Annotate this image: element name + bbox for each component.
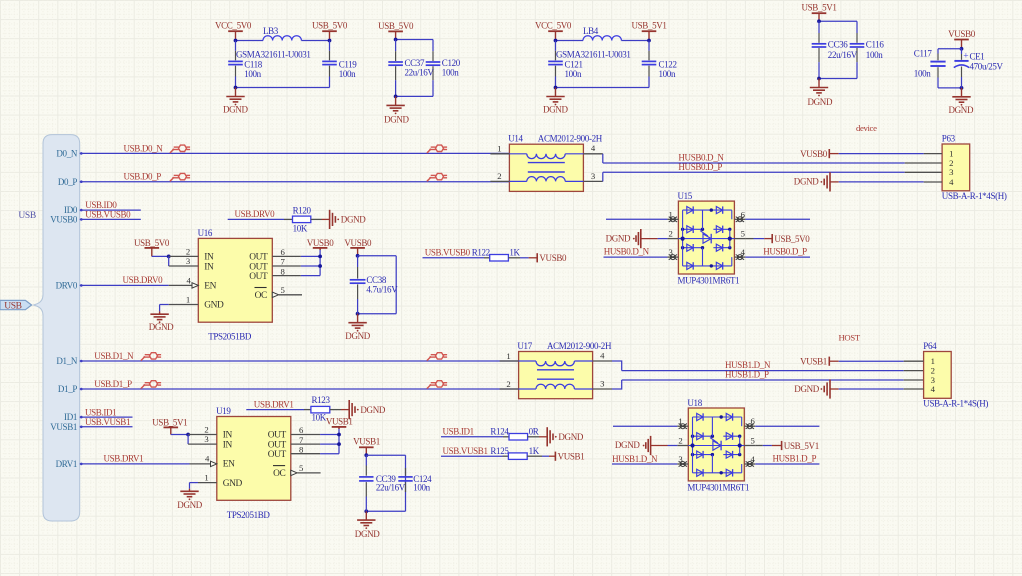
svg-text:USB_5V1: USB_5V1 — [152, 418, 187, 428]
svg-text:U19: U19 — [216, 406, 231, 416]
svg-text:100n: 100n — [565, 69, 582, 79]
svg-text:VCC_5V0: VCC_5V0 — [535, 21, 572, 31]
svg-text:CC36: CC36 — [828, 40, 848, 50]
svg-text:U15: U15 — [678, 191, 693, 201]
svg-text:2: 2 — [506, 379, 510, 389]
svg-text:22u/16V: 22u/16V — [828, 50, 858, 60]
svg-text:USB.ID1: USB.ID1 — [443, 427, 474, 437]
svg-text:5: 5 — [299, 463, 303, 473]
svg-text:R122: R122 — [472, 248, 490, 258]
svg-text:IN: IN — [223, 431, 233, 441]
svg-text:DGND: DGND — [345, 331, 370, 341]
svg-text:2: 2 — [497, 171, 501, 181]
svg-text:USB_5V0: USB_5V0 — [774, 234, 810, 244]
svg-text:3: 3 — [949, 167, 953, 177]
svg-text:CC37: CC37 — [405, 58, 425, 68]
svg-text:0R: 0R — [529, 427, 539, 437]
svg-text:22u/16V: 22u/16V — [376, 483, 406, 493]
svg-text:4.7u/16V: 4.7u/16V — [366, 284, 398, 294]
svg-text:100n: 100n — [442, 67, 459, 77]
svg-text:GND: GND — [223, 479, 243, 489]
svg-text:GSMA321611-U0031: GSMA321611-U0031 — [556, 50, 631, 60]
svg-text:OUT: OUT — [249, 262, 268, 272]
svg-text:OC: OC — [255, 291, 267, 301]
svg-text:OUT: OUT — [268, 440, 287, 450]
svg-text:R125: R125 — [490, 446, 509, 456]
svg-text:VUSB0: VUSB0 — [344, 238, 372, 248]
svg-text:C119: C119 — [339, 60, 358, 70]
svg-text:C122: C122 — [659, 60, 677, 70]
svg-text:OUT: OUT — [249, 253, 268, 263]
svg-text:MUP4301MR6T1: MUP4301MR6T1 — [687, 482, 749, 492]
svg-text:100n: 100n — [659, 69, 676, 79]
svg-text:C116: C116 — [866, 40, 885, 50]
svg-text:HUSB0.D_P: HUSB0.D_P — [678, 162, 722, 172]
svg-text:USB.D1_P: USB.D1_P — [94, 379, 132, 389]
svg-text:10K: 10K — [293, 223, 308, 233]
svg-text:ACM2012-900-2H: ACM2012-900-2H — [547, 341, 612, 351]
svg-text:GSMA321611-U0031: GSMA321611-U0031 — [236, 50, 311, 60]
svg-text:USB: USB — [4, 301, 21, 311]
svg-text:USB-A-R-1*4S(H): USB-A-R-1*4S(H) — [942, 191, 1007, 201]
svg-text:C120: C120 — [442, 58, 461, 68]
svg-text:2: 2 — [186, 247, 190, 257]
svg-text:2: 2 — [678, 436, 682, 446]
svg-text:HUSB1.D_N: HUSB1.D_N — [612, 454, 658, 464]
svg-text:USB.ID1: USB.ID1 — [85, 408, 116, 418]
svg-text:U16: U16 — [198, 228, 213, 238]
svg-text:MUP4301MR6T1: MUP4301MR6T1 — [678, 276, 740, 286]
svg-text:USB_5V0: USB_5V0 — [134, 238, 170, 248]
svg-text:VUSB0: VUSB0 — [539, 253, 567, 263]
svg-text:LB3: LB3 — [263, 26, 279, 36]
svg-text:DGND: DGND — [558, 432, 583, 442]
svg-text:R124: R124 — [490, 427, 509, 437]
svg-text:VUSB0: VUSB0 — [50, 215, 78, 225]
svg-text:1: 1 — [497, 144, 501, 154]
svg-text:VUSB0: VUSB0 — [307, 238, 335, 248]
svg-text:DGND: DGND — [606, 234, 631, 244]
svg-text:VUSB0: VUSB0 — [948, 29, 976, 39]
svg-text:HUSB0.D_N: HUSB0.D_N — [604, 246, 650, 256]
svg-text:USB.DRV1: USB.DRV1 — [254, 399, 294, 409]
svg-text:D1_N: D1_N — [56, 356, 77, 366]
svg-text:3: 3 — [591, 171, 595, 181]
svg-text:VUSB1: VUSB1 — [800, 357, 827, 367]
svg-text:USB_5V1: USB_5V1 — [631, 21, 666, 31]
svg-text:USB.D0_N: USB.D0_N — [124, 143, 164, 153]
svg-text:DRV0: DRV0 — [56, 281, 78, 291]
svg-text:3: 3 — [600, 378, 604, 388]
svg-text:5: 5 — [751, 436, 755, 446]
svg-text:USB: USB — [18, 211, 35, 221]
svg-text:EN: EN — [204, 282, 216, 292]
svg-text:DGND: DGND — [177, 500, 202, 510]
svg-text:3: 3 — [678, 454, 682, 464]
svg-text:USB.VUSB0: USB.VUSB0 — [85, 209, 131, 219]
svg-text:100n: 100n — [339, 69, 356, 79]
svg-text:10K: 10K — [312, 412, 327, 422]
svg-text:IN: IN — [204, 253, 214, 263]
svg-text:TPS2051BD: TPS2051BD — [227, 510, 271, 520]
svg-text:USB.D1_N: USB.D1_N — [94, 351, 134, 361]
svg-text:USB.VUSB1: USB.VUSB1 — [85, 417, 130, 427]
svg-text:DGND: DGND — [794, 177, 819, 187]
svg-text:P64: P64 — [923, 341, 937, 351]
svg-text:D1_P: D1_P — [58, 384, 77, 394]
svg-text:GND: GND — [204, 301, 224, 311]
svg-text:100n: 100n — [866, 50, 883, 60]
svg-text:100n: 100n — [244, 69, 261, 79]
svg-text:ACM2012-900-2H: ACM2012-900-2H — [538, 134, 603, 144]
svg-text:C117: C117 — [914, 49, 933, 59]
svg-text:P63: P63 — [942, 134, 956, 144]
svg-text:HUSB0.D_P: HUSB0.D_P — [763, 246, 807, 256]
svg-text:DRV1: DRV1 — [56, 459, 77, 469]
svg-text:USB.DRV0: USB.DRV0 — [235, 209, 276, 219]
svg-text:IN: IN — [204, 262, 214, 272]
svg-text:3: 3 — [186, 256, 190, 266]
svg-text:USB_5V1: USB_5V1 — [784, 441, 819, 451]
svg-text:device: device — [856, 123, 877, 133]
svg-text:C121: C121 — [565, 60, 583, 70]
svg-text:U17: U17 — [517, 341, 532, 351]
svg-text:USB_5V1: USB_5V1 — [801, 3, 836, 13]
svg-text:USB_5V0: USB_5V0 — [312, 21, 348, 31]
svg-text:VUSB1: VUSB1 — [50, 422, 77, 432]
svg-text:TPS2051BD: TPS2051BD — [208, 332, 252, 342]
svg-text:1K: 1K — [509, 248, 520, 258]
svg-text:1: 1 — [678, 416, 682, 426]
svg-text:OUT: OUT — [268, 450, 287, 460]
svg-text:USB.DRV1: USB.DRV1 — [104, 454, 144, 464]
svg-text:DGND: DGND — [543, 105, 568, 115]
svg-text:DGND: DGND — [149, 322, 174, 332]
svg-text:DGND: DGND — [615, 440, 640, 450]
svg-text:USB.VUSB1: USB.VUSB1 — [443, 446, 488, 456]
svg-text:ID1: ID1 — [64, 412, 77, 422]
svg-text:OC: OC — [273, 469, 285, 479]
svg-text:USB-A-R-1*4S(H): USB-A-R-1*4S(H) — [923, 398, 988, 408]
svg-text:OUT: OUT — [268, 431, 287, 441]
svg-text:DGND: DGND — [949, 105, 974, 115]
svg-text:CE1: CE1 — [970, 51, 985, 61]
svg-text:R123: R123 — [312, 395, 331, 405]
svg-text:3: 3 — [204, 434, 208, 444]
svg-text:1: 1 — [186, 295, 190, 305]
svg-text:DGND: DGND — [223, 105, 248, 115]
svg-text:VUSB1: VUSB1 — [558, 452, 585, 462]
svg-text:5: 5 — [281, 285, 285, 295]
svg-text:C118: C118 — [244, 60, 263, 70]
svg-text:U14: U14 — [508, 134, 523, 144]
svg-text:DGND: DGND — [808, 97, 833, 107]
svg-text:USB_5V0: USB_5V0 — [378, 21, 414, 31]
svg-text:DGND: DGND — [384, 115, 409, 125]
svg-text:1: 1 — [204, 473, 208, 483]
svg-text:DGND: DGND — [794, 384, 819, 394]
svg-text:HUSB1.D_P: HUSB1.D_P — [725, 370, 769, 380]
svg-text:1: 1 — [506, 351, 510, 361]
svg-text:LB4: LB4 — [583, 26, 599, 36]
svg-text:5: 5 — [741, 229, 745, 239]
svg-text:EN: EN — [223, 460, 235, 470]
svg-text:+: + — [963, 51, 968, 61]
svg-text:DGND: DGND — [355, 529, 380, 539]
svg-text:DGND: DGND — [360, 405, 385, 415]
svg-text:U18: U18 — [687, 398, 702, 408]
svg-text:100n: 100n — [413, 483, 430, 493]
svg-text:22u/16V: 22u/16V — [405, 67, 435, 77]
svg-text:2: 2 — [669, 229, 673, 239]
svg-text:D0_P: D0_P — [58, 177, 77, 187]
svg-text:470u/25V: 470u/25V — [970, 62, 1004, 72]
svg-text:1: 1 — [669, 209, 673, 219]
svg-text:D0_N: D0_N — [56, 149, 77, 159]
svg-text:VUSB0: VUSB0 — [800, 149, 828, 159]
svg-text:USB.VUSB0: USB.VUSB0 — [425, 248, 471, 258]
svg-text:VUSB1: VUSB1 — [353, 436, 380, 446]
svg-text:1K: 1K — [529, 446, 540, 456]
svg-text:IN: IN — [223, 440, 233, 450]
svg-text:HOST: HOST — [839, 332, 861, 342]
svg-text:100n: 100n — [914, 69, 931, 79]
svg-text:HUSB1.D_P: HUSB1.D_P — [773, 454, 817, 464]
svg-text:VCC_5V0: VCC_5V0 — [215, 21, 252, 31]
svg-text:USB.DRV0: USB.DRV0 — [123, 275, 164, 285]
svg-text:OUT: OUT — [249, 272, 268, 282]
svg-text:3: 3 — [669, 247, 673, 257]
svg-text:USB.D0_P: USB.D0_P — [124, 172, 162, 182]
svg-text:2: 2 — [204, 425, 208, 435]
svg-text:R120: R120 — [293, 206, 312, 216]
svg-text:DGND: DGND — [341, 215, 366, 225]
